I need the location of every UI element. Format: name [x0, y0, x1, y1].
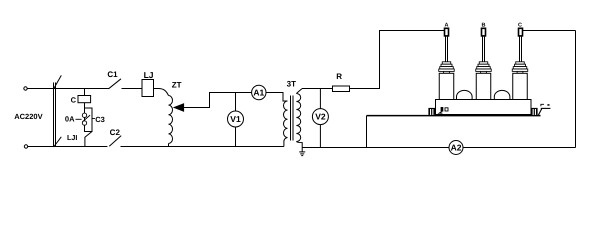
- mounting comb left: [428, 108, 435, 115]
- svg-text:A1: A1: [253, 88, 264, 98]
- arrester phase B bushing: [476, 23, 492, 100]
- svg-text:C: C: [71, 96, 77, 105]
- wire: [122, 88, 143, 90]
- mounting comb right: [531, 108, 538, 115]
- dome between B and C: [494, 90, 510, 99]
- wire A1 to 3T primary: [266, 93, 288, 102]
- label C3: [92, 118, 95, 120]
- svg-text:C2: C2: [110, 128, 121, 137]
- node V1 tap: [235, 93, 237, 112]
- wire: [319, 125, 321, 148]
- variac wiper arrow: [174, 104, 183, 111]
- wire primary to rail: [284, 138, 288, 147]
- voltmeter V1: [228, 111, 244, 127]
- svg-text:V2: V2: [315, 112, 326, 122]
- wire wiper to A1: [183, 93, 252, 108]
- knife switch (double pole): [53, 83, 55, 147]
- flange / earth bar: [367, 115, 541, 117]
- terminal mark JD on tank: [441, 107, 444, 112]
- arrester base tank: [436, 100, 532, 115]
- node fuse-branch top: [84, 89, 86, 96]
- svg-text:A2: A2: [451, 143, 462, 153]
- switch blade bottom: [54, 137, 62, 147]
- wire phase C to return lead: [522, 30, 576, 32]
- svg-text:LJ: LJ: [144, 70, 154, 80]
- terminal bottom (AC220V N): [24, 145, 27, 148]
- earth mark right of flange: [538, 108, 542, 115]
- node V2 tap: [319, 89, 321, 109]
- svg-text:0A: 0A: [65, 115, 75, 124]
- dome between A and B: [457, 90, 473, 99]
- svg-text:R: R: [336, 72, 342, 81]
- terminal top (AC220V L): [24, 87, 27, 90]
- wire: [84, 103, 86, 108]
- arrester phase A bushing: [439, 23, 455, 100]
- wire secondary bottom to ground node: [296, 142, 302, 152]
- svg-text:ZT: ZT: [172, 80, 182, 89]
- resistor R: [333, 86, 350, 92]
- svg-text:V1: V1: [230, 114, 241, 124]
- ammeter A2: [449, 141, 463, 155]
- svg-text:C3: C3: [95, 115, 105, 124]
- 3T primary winding: [284, 101, 288, 137]
- wire: [168, 144, 170, 147]
- switch blade top: [54, 75, 62, 89]
- bottom rail right: [463, 147, 576, 149]
- wire to ground rail: [85, 132, 92, 147]
- ground (3T secondary): [299, 151, 305, 153]
- wire R to HV lead: [350, 31, 445, 89]
- svg-text:C1: C1: [107, 70, 118, 79]
- wire: [28, 146, 108, 148]
- svg-text:LJI: LJI: [67, 133, 77, 142]
- voltmeter V2: [312, 109, 328, 125]
- wire: [27, 88, 108, 90]
- HV wire: [302, 88, 333, 90]
- base top edge: [436, 99, 532, 101]
- svg-text:3T: 3T: [287, 80, 296, 89]
- relay contact LJ: [142, 80, 154, 97]
- wire flange to measuring rail: [366, 116, 368, 148]
- bottom rail middle: [121, 146, 284, 148]
- fuse C: [78, 96, 91, 103]
- wire: [235, 127, 237, 147]
- relay contact 0A box: [85, 108, 93, 132]
- arrester phase C bushing: [512, 23, 528, 100]
- 3T core: [290, 96, 292, 141]
- ammeter A1: [252, 85, 266, 99]
- svg-text:AC220V: AC220V: [14, 112, 42, 121]
- wire to variac: [154, 89, 169, 96]
- 3T secondary winding: [296, 89, 301, 94]
- wire HV return rail: [302, 147, 449, 149]
